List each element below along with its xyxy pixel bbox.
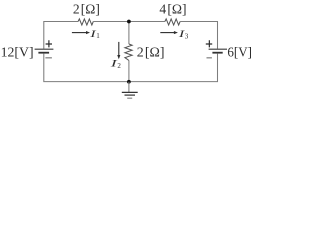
current arrow I1 xyxy=(72,32,86,34)
battery V2 6V short plate xyxy=(212,52,222,54)
resistor R2 2ohm (middle vertical zigzag) xyxy=(125,44,132,60)
svg-text:2 [Ω]: 2 [Ω] xyxy=(137,45,165,60)
battery V1 12V short plate xyxy=(38,52,49,54)
node junction dot bottom xyxy=(127,80,131,84)
wire top-right segment and right-upper xyxy=(180,22,217,49)
battery V1 12V long plate xyxy=(35,48,54,50)
battery V2 minus sign xyxy=(207,57,212,59)
ground bar 2 xyxy=(125,94,136,96)
wire middle branch upper xyxy=(128,22,130,45)
battery V1 minus sign xyxy=(45,57,52,59)
resistor R3 4ohm (top-right zigzag) xyxy=(165,19,180,25)
ground bar 3 xyxy=(127,97,132,99)
current arrow I3 xyxy=(160,32,174,34)
wire left-lower and bottom-left segment xyxy=(44,54,129,82)
svg-text:12[V]: 12[V] xyxy=(1,45,34,60)
ground bar 1 xyxy=(122,91,138,93)
wire right-lower and bottom-right segment xyxy=(129,54,218,82)
battery V1 plus sign xyxy=(46,40,52,47)
node junction dot top xyxy=(127,20,131,24)
wire left-upper and top-left segment xyxy=(44,22,78,49)
svg-text:3: 3 xyxy=(185,32,189,40)
current arrow I2 (downward) xyxy=(118,42,120,55)
svg-text:2 [Ω]: 2 [Ω] xyxy=(73,2,100,17)
ground stem xyxy=(128,82,130,93)
svg-text:1: 1 xyxy=(96,32,100,40)
wire middle branch lower xyxy=(128,60,130,81)
svg-text:2: 2 xyxy=(117,62,121,70)
resistor R1 2ohm (top-left zigzag) xyxy=(78,19,93,25)
wire top-middle segment xyxy=(93,21,165,23)
battery V2 plus sign xyxy=(206,40,212,47)
svg-text:6[V]: 6[V] xyxy=(227,45,252,60)
svg-text:4 [Ω]: 4 [Ω] xyxy=(159,2,186,17)
battery V2 6V long plate xyxy=(209,48,227,50)
